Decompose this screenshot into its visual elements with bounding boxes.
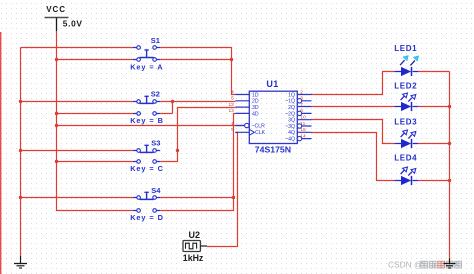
U1 ~4Q bubble: [297, 136, 301, 140]
wire clock U2 to CLK pin 9: [207, 133, 238, 247]
svg-text:1Q: 1Q: [288, 92, 295, 98]
svg-text:Key = A: Key = A: [130, 62, 163, 71]
junction S4 contacts tie: [232, 196, 235, 199]
wire LED4 cathode to right bus: [418, 180, 449, 182]
junction ground bus / S4 top: [19, 196, 22, 199]
junction right bus / LED4: [448, 179, 451, 182]
svg-text:~3Q: ~3Q: [285, 124, 295, 130]
switch S4 (Key = D): [130, 186, 164, 222]
wire S3 bottom feed: [57, 161, 134, 163]
svg-text:U2: U2: [189, 230, 201, 240]
LED3: [394, 118, 418, 149]
watermark: [388, 259, 462, 269]
wire S1 bottom contact tie: [160, 59, 231, 61]
wire S2 bottom contact tie: [160, 102, 172, 114]
wire S2 output to 2D pin 5: [160, 101, 235, 103]
wire S4 output to 4D pin 13: [160, 114, 235, 198]
svg-text:LED2: LED2: [394, 81, 417, 90]
junction VCC / S3 bottom: [55, 160, 58, 163]
svg-text:S2: S2: [151, 89, 160, 98]
svg-text:15: 15: [300, 127, 306, 133]
wire LED2 cathode to right bus: [418, 106, 449, 108]
switch S3 (Key = C): [130, 138, 164, 173]
U1 ~3Q bubble: [297, 124, 301, 128]
svg-text:~4Q: ~4Q: [285, 137, 295, 143]
svg-text:12: 12: [228, 102, 234, 108]
svg-text:S4: S4: [151, 186, 161, 195]
junction right bus / LED3: [448, 142, 451, 145]
svg-text:LED3: LED3: [394, 118, 417, 127]
switch S1 (Key = A, pressed): [130, 36, 163, 71]
wire S1 output to 1D pin 4: [160, 48, 235, 95]
svg-text:3: 3: [300, 96, 303, 102]
svg-text:VCC: VCC: [46, 5, 66, 14]
svg-text:LED1: LED1: [394, 44, 417, 53]
junction S2 contacts tie: [171, 100, 174, 103]
sheet border left edge: [0, 32, 2, 274]
wire 3Q pin 10 to LED3: [312, 120, 395, 144]
U1 inner pin names: [252, 92, 296, 142]
svg-text:2D: 2D: [252, 99, 259, 105]
clock source U2 1kHz: [183, 230, 207, 263]
svg-text:4Q: 4Q: [288, 130, 295, 136]
junction right bus / LED2: [448, 105, 451, 108]
svg-text:1kHz: 1kHz: [183, 253, 204, 263]
wire S1 top feed: [21, 47, 134, 49]
svg-text:9: 9: [231, 127, 234, 133]
svg-text:~1Q: ~1Q: [285, 99, 295, 105]
junction VCC / S1 bottom: [55, 58, 58, 61]
wire right bus to ground: [449, 72, 451, 259]
svg-text:4: 4: [231, 89, 234, 95]
svg-text:LED4: LED4: [394, 154, 417, 163]
junction ground bus / S2 top: [19, 100, 22, 103]
IC U1 74S175N: [228, 79, 311, 155]
svg-text:2Q: 2Q: [288, 105, 295, 111]
svg-text:14: 14: [300, 134, 306, 140]
svg-text:6: 6: [300, 108, 303, 114]
U2 output pin stub: [200, 245, 207, 247]
svg-text:~CLR: ~CLR: [252, 123, 266, 129]
U1 left pin stubs 1D 2D 3D 4D ~CLR CLK: [235, 95, 249, 133]
svg-text:U1: U1: [266, 79, 278, 89]
wire S3 output to 3D pin 12: [178, 108, 236, 151]
svg-text:2: 2: [300, 89, 303, 95]
U1 right pin stubs 1Q ~1Q 2Q ~2Q 3Q ~3Q 4Q ~4Q: [297, 95, 311, 139]
svg-text:5.0V: 5.0V: [63, 18, 83, 28]
wire 2Q pin 7 to LED2: [312, 106, 395, 108]
LED4: [394, 154, 418, 185]
svg-text:S1: S1: [151, 36, 160, 45]
wire 1Q pin 2 to LED1: [312, 72, 395, 95]
LED1 (lit): [394, 44, 418, 76]
wire S2 top feed: [21, 101, 134, 103]
LED2: [394, 81, 418, 111]
svg-text:4D: 4D: [252, 111, 259, 117]
wire VCC to ~CLR pin 1: [57, 125, 245, 127]
svg-text:S3: S3: [151, 138, 160, 147]
svg-text:11: 11: [300, 121, 305, 127]
svg-text:CSDN @: CSDN @: [388, 259, 423, 269]
wire VCC bus down to S4 bottom row: [57, 31, 134, 211]
svg-text:5: 5: [231, 96, 234, 102]
junction S1 contacts tie: [230, 58, 233, 61]
junction VCC / CLR wire: [55, 124, 58, 127]
svg-text:13: 13: [228, 108, 234, 114]
U1 pin numbers 4 5 12 13 1 9 / 2 3 7 6 10 11 15 14: [228, 89, 306, 139]
junction VCC / S2 bottom: [55, 112, 58, 115]
svg-text:10: 10: [300, 115, 306, 121]
junction ground bus / S3 top: [19, 149, 22, 152]
U1 ~CLR inversion bubble: [245, 123, 249, 127]
svg-text:Key = C: Key = C: [130, 164, 164, 173]
svg-text:3Q: 3Q: [288, 118, 295, 124]
svg-text:74S175N: 74S175N: [255, 145, 291, 155]
U2 square wave symbol: [186, 243, 197, 249]
ground right: [444, 259, 456, 269]
U1 ~2Q bubble: [297, 111, 301, 115]
svg-text:1D: 1D: [252, 92, 259, 98]
wire ground bus: [20, 48, 22, 257]
junction S3 contacts tie: [176, 149, 179, 152]
U1 CLK edge triangle: [249, 129, 254, 135]
svg-text:~2Q: ~2Q: [285, 111, 295, 117]
wire S4 top feed: [21, 197, 134, 199]
ground left: [14, 256, 27, 268]
power VCC symbol: [45, 5, 83, 31]
svg-text:Key = B: Key = B: [130, 116, 164, 125]
wire S3 bottom contact tie: [160, 151, 177, 162]
wire S4 bottom contact tie: [160, 198, 233, 211]
svg-text:CLK: CLK: [255, 130, 266, 136]
wire 4Q pin 15 to LED4: [312, 133, 395, 181]
wire S3 top feed: [21, 150, 134, 152]
svg-text:3D: 3D: [252, 105, 259, 111]
U1 ~1Q bubble: [297, 99, 301, 103]
svg-text:7: 7: [300, 102, 303, 108]
wire S2 bottom feed: [57, 113, 134, 115]
svg-text:1: 1: [231, 121, 234, 127]
svg-text:Key = D: Key = D: [130, 213, 164, 222]
switch S2 (Key = B): [130, 89, 164, 125]
wire LED3 cathode to right bus: [418, 143, 449, 145]
wire LED1 cathode to right bus: [418, 71, 449, 73]
wire S1 bottom feed: [57, 59, 134, 61]
